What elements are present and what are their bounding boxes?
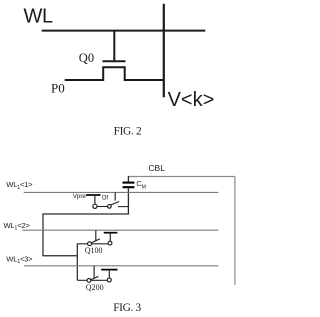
transistor Q100 lever arm <box>91 239 100 243</box>
transistor Q100 source wire <box>77 243 108 245</box>
wire gate stem of Q0 <box>113 31 115 62</box>
switch lever arm <box>111 202 119 205</box>
transistor Q100 contact circle right <box>108 241 112 245</box>
svg-text:WL1<3>: WL1<3> <box>6 255 33 266</box>
wire Q100 T stem <box>109 233 111 241</box>
svg-text:Q200: Q200 <box>86 283 104 292</box>
transistor Q100 contact circle left <box>88 242 92 246</box>
wire rail WL<3> <box>24 265 218 267</box>
wire vertical bit line V<k> <box>163 4 165 98</box>
wire WL rail <box>42 30 206 32</box>
switch contact circle (node side) <box>108 205 112 209</box>
wire vertical branch joining Q100 and Q200 <box>76 244 78 281</box>
wire capacitor top stem <box>127 176 129 182</box>
svg-text:WL1<1>: WL1<1> <box>6 180 33 191</box>
transistor Q200 stub from WL<3> rail <box>93 266 95 279</box>
svg-text:Of: Of <box>102 195 109 201</box>
wire CBL right vertical <box>234 177 236 285</box>
wire between switch contacts <box>97 206 108 208</box>
terminal T-bar Vpre <box>86 194 101 196</box>
capacitor CM bottom plate <box>123 186 135 188</box>
wire node branch: down-left L path <box>43 214 128 256</box>
transistor Q200 source wire <box>77 279 107 281</box>
transistor Q200 contact circle left <box>87 279 91 283</box>
transistor Q0 channel with source/drain wires <box>65 67 164 80</box>
svg-text:Q0: Q0 <box>79 51 94 65</box>
terminal T-bar Q200 <box>101 269 117 271</box>
wire Q200 T stem <box>108 270 110 278</box>
svg-text:FIG. 2: FIG. 2 <box>114 126 142 138</box>
wire CBL horizontal <box>128 176 235 178</box>
switch contact circle (Vpre side) <box>93 204 97 208</box>
transistor Q0 gate bar <box>103 60 126 62</box>
svg-text:WL: WL <box>24 6 53 28</box>
terminal T-bar Q100 <box>104 232 118 234</box>
wire stub hanging from WL<1> rail <box>114 192 116 200</box>
transistor Q200 lever arm <box>90 276 98 280</box>
svg-text:Vpre: Vpre <box>73 193 87 200</box>
transistor Q100 stub from WL<2> rail <box>95 230 97 241</box>
wire rail WL<2> <box>23 229 219 231</box>
capacitor CM top plate <box>123 182 135 184</box>
svg-text:M: M <box>142 184 146 190</box>
wire from switch to capacitor node <box>118 206 128 208</box>
transistor Q200 contact circle right <box>107 278 111 282</box>
wire rail WL<1> <box>24 191 219 193</box>
svg-text:CBL: CBL <box>148 163 165 173</box>
svg-text:P0: P0 <box>51 81 65 96</box>
svg-text:V<k>: V<k> <box>168 89 215 111</box>
svg-text:FIG. 3: FIG. 3 <box>113 302 141 314</box>
wire capacitor bottom stem down to node line <box>127 188 129 214</box>
wire Vpre T stem <box>94 195 96 204</box>
svg-text:Q100: Q100 <box>85 246 103 255</box>
